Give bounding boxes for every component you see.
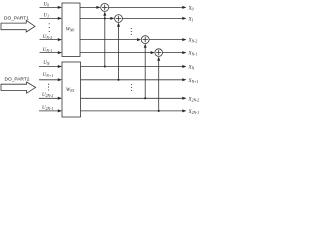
svg-text:XN: XN — [188, 66, 195, 71]
svg-text:X0: X0 — [188, 6, 194, 11]
svg-text:XN-2: XN-2 — [188, 39, 198, 44]
wire vertical v1 B1 to adder A1 — [104, 15, 106, 67]
wire input uN — [39, 66, 59, 68]
arrowhead output X1 — [182, 17, 186, 20]
arrowhead output XN-1 — [182, 51, 186, 54]
junction dot v1/B1 — [104, 65, 106, 67]
arrowhead into adder A4 left — [151, 51, 155, 54]
wire B3 block to output X2N-2 — [81, 97, 183, 99]
big arrow DO_PART1 — [1, 20, 35, 32]
adder A2 — [115, 15, 123, 23]
svg-text:X2N-1: X2N-1 — [188, 110, 200, 115]
ellipsis dots top inputs — [49, 23, 50, 24]
wire input uN-2 — [40, 39, 59, 41]
arrowhead into adder A2 left — [110, 17, 114, 20]
junction dot v4/B4 — [158, 110, 160, 112]
junction dot v1/L2 — [104, 17, 106, 19]
wire L1 adder A1 to output X0 — [109, 6, 183, 8]
arrowhead into adder A4 bottom — [157, 57, 160, 61]
adder A3 — [141, 36, 149, 44]
junction dot v2/B2 — [117, 79, 119, 81]
arrowhead input u1 — [58, 17, 62, 20]
wire L3 block to adder A3 — [80, 39, 138, 41]
svg-text:UN-1: UN-1 — [43, 48, 52, 53]
svg-text:U0: U0 — [44, 3, 50, 8]
arrowhead into adder A2 bottom — [117, 23, 120, 27]
arrowhead into adder A1 bottom — [103, 12, 106, 16]
wire input uN-1 — [40, 52, 59, 54]
wire L2 block to adder A2 — [80, 17, 112, 19]
svg-text:UN+1: UN+1 — [43, 73, 54, 78]
big arrow DO_PART2 — [1, 82, 36, 93]
svg-text:WN0: WN0 — [66, 28, 75, 33]
ellipsis dots top middle — [131, 28, 132, 29]
arrowhead input uN+1 — [58, 78, 62, 81]
arrowhead output X2N-1 — [182, 109, 186, 112]
wire L4 block to adder A4 — [80, 52, 152, 54]
svg-text:WN1: WN1 — [66, 88, 75, 93]
arrowhead input u2N-1 — [58, 109, 62, 112]
svg-text:U2N-1: U2N-1 — [42, 106, 53, 111]
wire input u1 — [40, 17, 59, 19]
svg-text:XN-1: XN-1 — [188, 52, 198, 57]
svg-text:UN: UN — [43, 61, 50, 66]
wire vertical v3 B3 to adder A3 — [144, 47, 146, 99]
adder A4 — [155, 49, 163, 57]
arrowhead into adder A1 left — [96, 6, 100, 9]
arrowhead into adder A3 bottom — [144, 44, 147, 48]
svg-text:X1: X1 — [188, 17, 194, 22]
svg-text:XN+1: XN+1 — [188, 79, 199, 84]
wire B1 block to output XN — [81, 66, 183, 68]
arrowhead output X0 — [182, 6, 186, 9]
wire L1 block to adder A1 — [80, 6, 98, 8]
wire input uN+1 — [39, 79, 59, 81]
wire B2 block to output XN+1 — [81, 79, 183, 81]
arrowhead output XN-2 — [182, 38, 186, 41]
adder A1 — [101, 3, 109, 11]
wire input u0 — [40, 6, 59, 8]
arrowhead input u2N-2 — [58, 97, 62, 100]
wire input u2N-1 — [39, 110, 59, 112]
block U2 (W_N1) — [62, 62, 81, 117]
wire L3 adder A3 to output XN-2 — [149, 39, 182, 41]
arrowhead input uN — [58, 65, 62, 68]
ellipsis dots bottom inputs — [48, 84, 49, 85]
svg-text:U1: U1 — [44, 14, 50, 19]
svg-text:X2N-2: X2N-2 — [188, 97, 200, 102]
wire input u2N-2 — [39, 97, 59, 99]
svg-text:UN-2: UN-2 — [43, 35, 52, 40]
arrowhead output XN — [182, 65, 186, 68]
block U1 (W_N0) — [62, 3, 80, 57]
arrowhead input uN-1 — [58, 51, 62, 54]
arrowhead input uN-2 — [58, 38, 62, 41]
junction dot v3/B3 — [144, 97, 146, 99]
wire B4 block to output X2N-1 — [81, 110, 183, 112]
svg-text:DO_PART1: DO_PART1 — [4, 16, 29, 22]
arrowhead output XN+1 — [182, 78, 186, 81]
wire vertical v2 B2 to adder A2 — [118, 26, 120, 80]
arrowhead output X2N-2 — [182, 97, 186, 100]
arrowhead input u0 — [58, 6, 62, 9]
wire L2 adder A2 to output X1 — [122, 17, 182, 19]
svg-text:U2N-2: U2N-2 — [42, 93, 53, 98]
arrowhead into adder A3 left — [137, 38, 141, 41]
svg-text:DO_PART2: DO_PART2 — [5, 77, 30, 83]
ellipsis dots bottom middle — [131, 84, 132, 85]
wire L4 adder A4 to output XN-1 — [163, 52, 183, 54]
wire vertical v4 B4 to adder A4 — [158, 60, 160, 111]
